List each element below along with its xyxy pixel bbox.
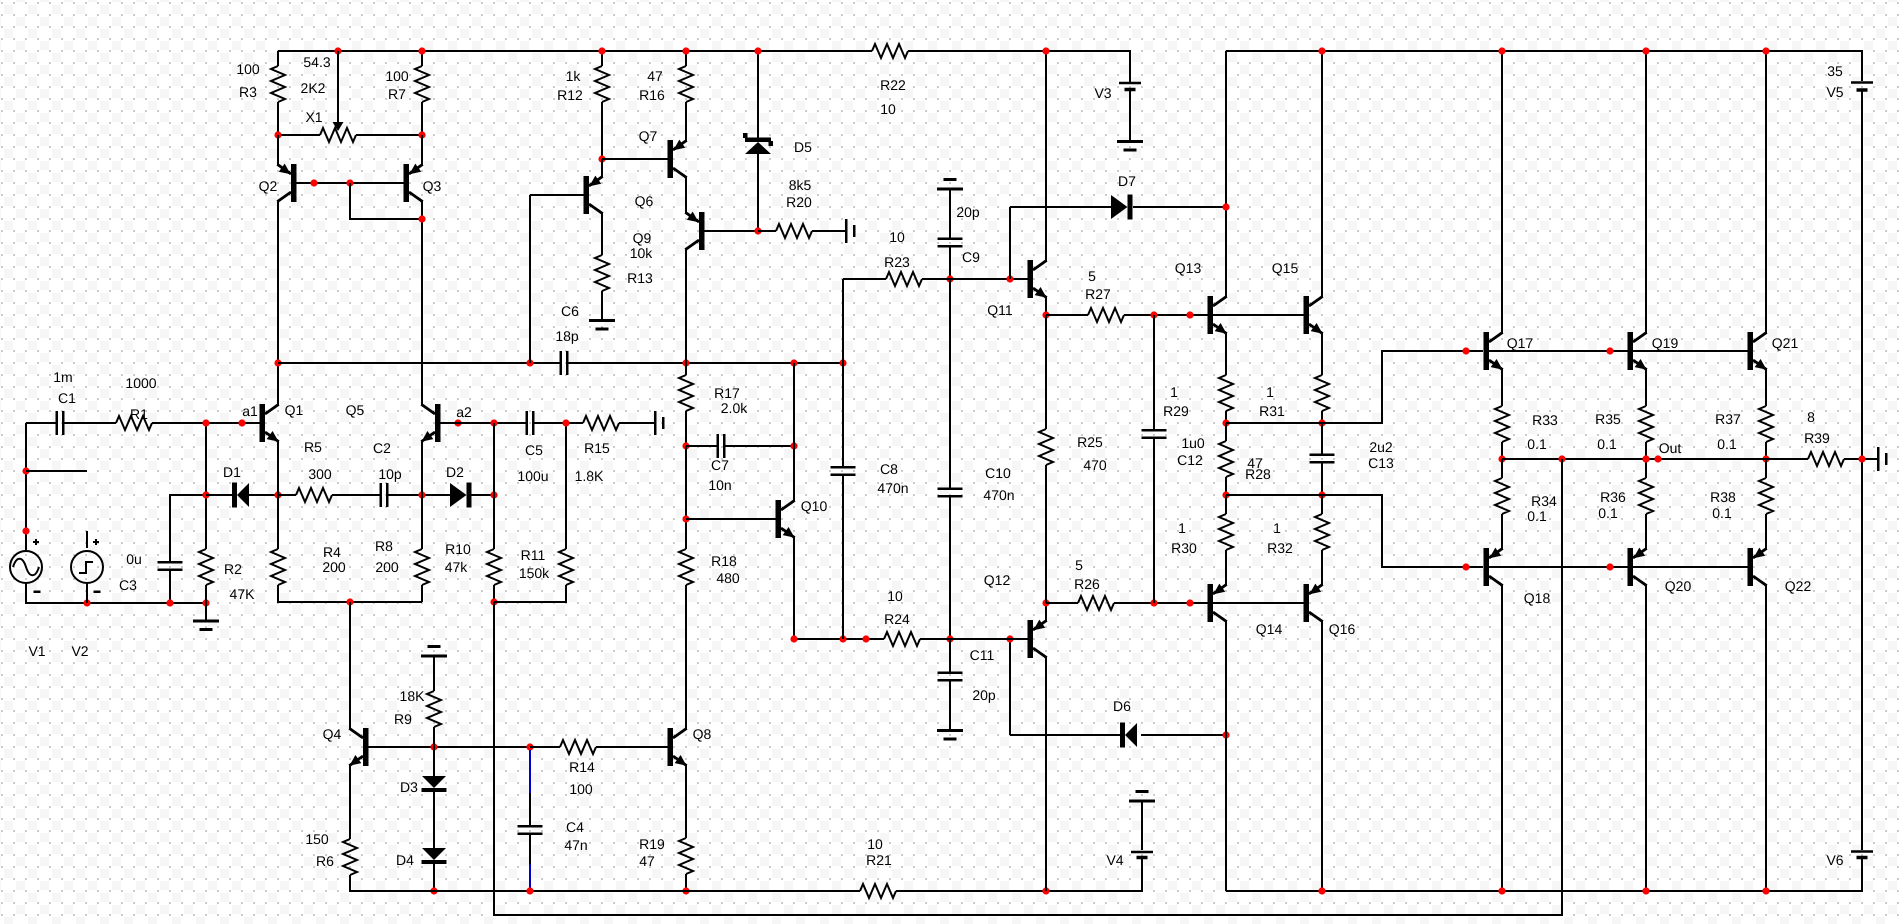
wire Q10 emitter down xyxy=(793,537,795,639)
wire V3 to ground xyxy=(1129,91,1131,140)
wire R35 bottom xyxy=(1645,442,1647,459)
svg-text:a2: a2 xyxy=(456,404,472,420)
transistor Q20 xyxy=(1628,548,1692,594)
svg-text:2.0k: 2.0k xyxy=(721,400,748,416)
wire R15 to ground xyxy=(619,422,654,424)
resistor R25 (470) xyxy=(1039,429,1107,473)
wire Q6 emitter up xyxy=(601,159,603,177)
resistor R37 (0.1) xyxy=(1715,406,1773,452)
svg-text:200: 200 xyxy=(375,559,399,575)
junction Q15 collector rail xyxy=(1318,47,1325,54)
svg-text:Q22: Q22 xyxy=(1785,578,1812,594)
junction C8 top xyxy=(839,359,846,366)
svg-text:1: 1 xyxy=(1266,384,1274,400)
resistor R26 (5) xyxy=(1074,557,1114,610)
svg-text:0.1: 0.1 xyxy=(1527,436,1547,452)
wire rail to Q13 collector column xyxy=(1225,51,1227,297)
junction Q1 emitter node xyxy=(274,491,281,498)
svg-text:Q13: Q13 xyxy=(1175,260,1202,276)
wire V5 to output ground node xyxy=(1861,91,1863,459)
resistor R15 (1.8K) xyxy=(575,416,619,484)
svg-text:D2: D2 xyxy=(446,464,464,480)
ground at R20 xyxy=(845,219,856,243)
wire upper base line Q17-Q19 xyxy=(1489,350,1628,352)
junction C5/R11 xyxy=(562,419,569,426)
wire R23 right lead xyxy=(922,278,950,280)
wire Q2 collector down xyxy=(277,201,279,363)
diode D3 (down) xyxy=(400,776,446,795)
svg-text:C2: C2 xyxy=(373,440,391,456)
svg-text:10: 10 xyxy=(867,836,883,852)
ground at R15 xyxy=(654,411,665,435)
svg-text:100u: 100u xyxy=(517,468,548,484)
junction R16 rail xyxy=(682,47,689,54)
svg-text:R24: R24 xyxy=(884,611,910,627)
wire V2 bottom xyxy=(86,583,88,603)
wire Q17 emitter to R33 xyxy=(1501,369,1503,406)
junction V2 bottom xyxy=(83,599,90,606)
wire Q4 base right xyxy=(368,746,531,748)
svg-text:470: 470 xyxy=(1083,457,1107,473)
resistor R33 (0.1) xyxy=(1495,406,1558,452)
svg-text:470n: 470n xyxy=(983,487,1014,503)
svg-text:C13: C13 xyxy=(1368,455,1394,471)
junction X1 left xyxy=(274,131,281,138)
svg-text:10: 10 xyxy=(880,101,896,117)
wire D1 cathode xyxy=(206,494,232,496)
svg-text:1: 1 xyxy=(1170,384,1178,400)
wire R23 left lead xyxy=(843,278,886,280)
wire Q11 collector to rail xyxy=(1045,51,1047,261)
svg-text:V4: V4 xyxy=(1106,852,1123,868)
wire R38 to Q22 emitter xyxy=(1765,514,1767,549)
wire C3 top xyxy=(170,495,206,561)
junction R7 top rail xyxy=(418,47,425,54)
battery V5 (35V) xyxy=(1826,63,1873,100)
svg-text:R8: R8 xyxy=(375,538,393,554)
junction R2/D1 line xyxy=(202,491,209,498)
wire R4 top xyxy=(277,495,279,549)
svg-text:C10: C10 xyxy=(985,465,1011,481)
wire Q2 emitter up xyxy=(277,135,279,165)
svg-text:Q17: Q17 xyxy=(1507,335,1534,351)
resistor R23 (10) xyxy=(884,229,922,286)
svg-text:C8: C8 xyxy=(880,461,898,477)
svg-text:C4: C4 xyxy=(566,819,584,835)
svg-text:Q11: Q11 xyxy=(987,302,1013,318)
svg-text:10k: 10k xyxy=(630,245,654,261)
wire Q21 collector to rail xyxy=(1765,51,1767,333)
junction R12/Q6/Q7 xyxy=(598,155,605,162)
junction upper base line mid xyxy=(1606,347,1613,354)
svg-text:Out: Out xyxy=(1659,440,1682,456)
wire R38 top xyxy=(1765,459,1767,478)
wire D2 cathode to R10 column xyxy=(471,494,494,496)
capacitor C11 (20p) xyxy=(938,647,996,703)
junction D5 rail xyxy=(754,47,761,54)
junction C4 bottom rail xyxy=(526,887,533,894)
resistor R32 (1) xyxy=(1267,514,1329,556)
wire R39 to supply midpoint xyxy=(1844,458,1877,460)
wire R2 top lead xyxy=(205,423,207,549)
resistor R30 (1) xyxy=(1171,514,1233,556)
junction R37 output rail xyxy=(1762,455,1769,462)
wire R36 to Q20 emitter xyxy=(1645,514,1647,549)
resistor R17 (2.0k) xyxy=(679,375,748,416)
svg-text:1000: 1000 xyxy=(125,375,156,391)
transistor Q6 xyxy=(584,176,654,214)
svg-text:0.1: 0.1 xyxy=(1597,436,1617,452)
resistor R36 (0.1) xyxy=(1598,478,1653,521)
wire D6 anode to x1226 xyxy=(1141,734,1226,736)
wire R29 bottom xyxy=(1225,411,1227,423)
svg-text:R9: R9 xyxy=(394,711,412,727)
junction C12 bottom tap xyxy=(1150,599,1157,606)
svg-text:a1: a1 xyxy=(242,403,258,419)
svg-text:Q21: Q21 xyxy=(1772,335,1799,351)
wire C13 bottom xyxy=(1321,464,1323,496)
svg-text:1.8K: 1.8K xyxy=(575,468,604,484)
svg-text:V2: V2 xyxy=(71,643,88,659)
wire X1 left lead xyxy=(278,134,320,136)
wire input left vertical to V1 xyxy=(25,423,27,551)
wire C10 top xyxy=(949,279,951,488)
resistor R28 (47) xyxy=(1219,441,1271,482)
wire R4 bottom to feedback node xyxy=(278,585,422,602)
resistor R4 (200) xyxy=(271,544,346,585)
resistor R1 (1000) xyxy=(116,375,157,430)
junction output rail R35 xyxy=(1642,455,1649,462)
svg-text:0u: 0u xyxy=(126,551,142,567)
svg-text:R2: R2 xyxy=(224,561,242,577)
node a2 label xyxy=(456,404,472,420)
wire R16 top xyxy=(685,51,687,66)
wire Q4 emitter down xyxy=(349,765,351,839)
wire D3 anode xyxy=(433,747,435,776)
svg-text:47K: 47K xyxy=(230,586,256,602)
source V1 sine generator xyxy=(10,539,46,659)
wire C1 to R1 xyxy=(65,422,117,424)
svg-text:54.3: 54.3 xyxy=(303,54,330,70)
svg-text:R31: R31 xyxy=(1259,403,1285,419)
junction feedback tap xyxy=(346,598,353,605)
resistor R19 (47) xyxy=(639,836,693,874)
diode D2 xyxy=(446,464,471,508)
junction base link b xyxy=(346,179,353,186)
svg-text:8: 8 xyxy=(1807,409,1815,425)
svg-text:100: 100 xyxy=(385,68,409,84)
wire R18 upper lead xyxy=(685,446,687,549)
junction Q1/Q2 collectors xyxy=(274,359,281,366)
svg-text:R38: R38 xyxy=(1710,489,1736,505)
junction a1 node xyxy=(238,419,245,426)
ground below V3 xyxy=(1117,140,1143,152)
wire R37 bottom xyxy=(1765,442,1767,459)
wire output rail xyxy=(1502,458,1808,460)
wire D6 line left xyxy=(1010,734,1120,736)
svg-text:R17: R17 xyxy=(714,385,740,401)
wire stub to V2 column xyxy=(26,470,87,472)
wire collector line to C6 xyxy=(278,362,560,364)
transistor Q16 xyxy=(1304,584,1356,637)
diode D7 (right) xyxy=(1111,173,1136,220)
wire R3 bottom lead xyxy=(277,102,279,135)
junction C4 top xyxy=(526,743,533,750)
wire D7 tap down xyxy=(1009,207,1011,279)
transistor Q5 xyxy=(346,402,441,442)
wire Q16 collector down xyxy=(1321,621,1323,891)
wire D3 to D4 xyxy=(433,792,435,848)
svg-text:1: 1 xyxy=(1273,520,1281,536)
wire link to upper output bases xyxy=(1322,351,1483,423)
svg-text:D6: D6 xyxy=(1113,698,1131,714)
svg-text:2u2: 2u2 xyxy=(1369,439,1393,455)
junction C10/R24 line xyxy=(946,635,953,642)
resistor R38 (0.1) xyxy=(1710,478,1773,521)
wire Q11 emitter to R27 xyxy=(1046,314,1088,316)
svg-text:R26: R26 xyxy=(1074,576,1100,592)
svg-text:R18: R18 xyxy=(711,553,737,569)
transistor Q7 xyxy=(639,128,687,178)
wire R32 to Q16 emitter xyxy=(1321,550,1323,585)
wire C7 right lead xyxy=(726,445,795,447)
svg-text:R22: R22 xyxy=(880,77,906,93)
junction base line Q13 xyxy=(1186,311,1193,318)
svg-text:5: 5 xyxy=(1088,268,1096,284)
wire R30 to Q14 emitter xyxy=(1225,550,1227,585)
wire D1 anode to Q1 emitter column xyxy=(249,494,278,496)
wire Q10 column to collector line xyxy=(793,363,795,446)
wire R11 bottom L xyxy=(494,585,566,602)
transistor Q19 xyxy=(1628,332,1679,370)
resistor R22 (10 ohm) in top rail xyxy=(872,44,908,117)
svg-text:35: 35 xyxy=(1827,63,1843,79)
svg-text:10p: 10p xyxy=(378,466,402,482)
wire C8 bottom lead xyxy=(842,476,844,639)
wire V2 top stub xyxy=(86,531,88,548)
junction Q5 emitter node xyxy=(418,491,425,498)
transistor Q21 xyxy=(1748,332,1799,370)
wire R11 top xyxy=(565,423,567,549)
resistor R10 (47k) xyxy=(445,541,501,585)
svg-text:0.1: 0.1 xyxy=(1598,505,1618,521)
wire R14 to Q8 base xyxy=(596,746,668,748)
svg-text:D7: D7 xyxy=(1118,173,1136,189)
junction R31/C13 xyxy=(1318,419,1325,426)
svg-text:0.1: 0.1 xyxy=(1717,436,1737,452)
svg-text:2K2: 2K2 xyxy=(301,80,326,96)
wire Q22 collector down xyxy=(1765,585,1767,891)
capacitor C5 (100u) xyxy=(517,411,548,484)
svg-text:R13: R13 xyxy=(627,270,653,286)
junction Q17 collector rail xyxy=(1498,47,1505,54)
svg-text:480: 480 xyxy=(716,570,740,586)
svg-text:C12: C12 xyxy=(1177,452,1203,468)
svg-text:R27: R27 xyxy=(1085,286,1111,302)
transistor Q3 xyxy=(404,164,442,202)
wire R28 top lead xyxy=(1225,423,1227,441)
wire R10 bottom xyxy=(493,585,495,602)
junction C7 right xyxy=(790,442,797,449)
zener diode D5 (cathode up) xyxy=(743,133,812,155)
wire R31 bottom xyxy=(1321,411,1323,423)
junction upper base line xyxy=(1462,347,1469,354)
wire C5 to R15 xyxy=(535,422,584,424)
wire R16 bottom to Q7 emitter xyxy=(685,102,687,141)
resistor R20 (8k5) xyxy=(776,177,812,238)
transistor Q13 xyxy=(1175,260,1227,334)
wire Q5 collector up xyxy=(421,363,423,405)
svg-text:D5: D5 xyxy=(794,139,812,155)
svg-text:47k: 47k xyxy=(445,559,469,575)
junction C7 left xyxy=(682,442,689,449)
svg-text:Q19: Q19 xyxy=(1652,335,1679,351)
wire Q17 collector to rail xyxy=(1501,51,1503,333)
svg-text:100: 100 xyxy=(236,61,260,77)
transistor Q8 xyxy=(668,726,712,766)
svg-text:C11: C11 xyxy=(970,647,995,663)
wire Q6-Q7 base wire xyxy=(602,158,668,160)
wire Q12 collector down xyxy=(1045,657,1047,891)
svg-text:Q4: Q4 xyxy=(323,726,342,742)
wire R9 bottom xyxy=(433,727,435,747)
junction output rail feedback tap xyxy=(1558,455,1565,462)
wire C4 upper blue segment xyxy=(529,750,531,793)
wire Q1 emitter down xyxy=(277,441,279,495)
capacitor C9 (20p) xyxy=(938,204,981,265)
wire rail to D5 xyxy=(757,51,759,138)
wire Q9 collector down xyxy=(685,249,687,363)
svg-text:R12: R12 xyxy=(557,87,583,103)
svg-text:150: 150 xyxy=(305,831,329,847)
svg-text:Q7: Q7 xyxy=(639,128,658,144)
wire R34 top xyxy=(1501,459,1503,478)
transistor Q1 xyxy=(260,402,304,442)
resistor R9 (18K) xyxy=(394,688,441,727)
svg-text:Q5: Q5 xyxy=(346,402,365,418)
svg-text:R3: R3 xyxy=(239,84,257,100)
svg-text:Q8: Q8 xyxy=(693,726,712,742)
wire Q13 emitter to R29 xyxy=(1225,333,1227,375)
junction Q12 emitter / R26 xyxy=(1042,599,1049,606)
svg-text:Q15: Q15 xyxy=(1272,260,1299,276)
svg-text:10: 10 xyxy=(889,229,905,245)
junction C8 bottom xyxy=(839,635,846,642)
junction D4 bottom rail xyxy=(430,887,437,894)
junction R10 bottom / feedback line xyxy=(490,598,497,605)
svg-text:18K: 18K xyxy=(400,688,426,704)
junction R19 bottom rail xyxy=(682,887,689,894)
capacitor C1 (1m) input coupling xyxy=(53,369,76,435)
wire output node down to V6 xyxy=(1861,459,1863,850)
wire C12 top xyxy=(1153,315,1155,429)
ground above V4 xyxy=(1129,790,1155,850)
wire Q7 collector down xyxy=(685,177,687,213)
svg-text:R28: R28 xyxy=(1245,466,1271,482)
wire upper cross link xyxy=(1226,422,1322,424)
resistor R29 (1) xyxy=(1163,375,1233,419)
junction Q3 collector tie xyxy=(418,215,425,222)
junction R29/R28 xyxy=(1222,419,1229,426)
svg-text:Q9: Q9 xyxy=(633,230,652,246)
transistor Q14 xyxy=(1208,584,1283,637)
transistor Q15 xyxy=(1272,260,1323,334)
junction base line Q14 xyxy=(1186,599,1193,606)
wire R19 bottom xyxy=(685,874,687,891)
ground at R2 bottom xyxy=(193,603,219,631)
transistor Q10 xyxy=(776,498,828,538)
wire R24 to Q12 base xyxy=(920,638,1028,640)
ground above C9 xyxy=(937,178,963,238)
junction input/V2 stub xyxy=(22,467,29,474)
resistor R3 (100) xyxy=(236,61,285,102)
junction C13/R32 xyxy=(1318,491,1325,498)
wire V6 to bottom negative rail xyxy=(1226,859,1862,891)
wire Q15 collector to rail xyxy=(1321,51,1323,297)
svg-text:150k: 150k xyxy=(519,565,550,581)
wire lower base line Q18-Q20 xyxy=(1489,566,1628,568)
ground below R13 xyxy=(589,319,615,331)
source V2 step generator xyxy=(71,539,103,659)
wire Q3 emitter up xyxy=(421,135,423,165)
wire R12 bottom xyxy=(601,102,603,159)
capacitor C7 (10n) xyxy=(708,434,731,493)
resistor R2 (47K) xyxy=(199,549,255,602)
wire C9 bottom xyxy=(949,248,951,280)
resistor R5 (300) xyxy=(296,439,332,502)
wire Q14 column to bottom rail xyxy=(1225,735,1227,891)
wire Q12 emitter up xyxy=(1045,603,1047,621)
potentiometer X1 (2K2 set 54.3) xyxy=(301,54,356,142)
wire R12 top xyxy=(601,51,603,66)
svg-text:Q16: Q16 xyxy=(1329,621,1356,637)
svg-text:C5: C5 xyxy=(525,442,543,458)
wire R23 riser xyxy=(842,279,844,363)
wire Q10 collector up xyxy=(793,446,795,501)
wire R34 to Q18 emitter xyxy=(1501,514,1503,549)
wire feedback from R10 column to output xyxy=(494,459,1562,915)
svg-text:R25: R25 xyxy=(1077,434,1103,450)
svg-text:C6: C6 xyxy=(561,303,579,319)
junction a2 node xyxy=(454,419,461,426)
svg-text:R23: R23 xyxy=(884,254,910,270)
capacitor C8 (470n) xyxy=(831,461,909,496)
wire R8 bottom xyxy=(421,585,423,602)
wire R2 bottom lead xyxy=(205,585,207,603)
svg-text:R37: R37 xyxy=(1715,411,1741,427)
wire R7 bottom lead xyxy=(421,102,423,135)
transistor Q11 xyxy=(987,260,1046,318)
junction R2 bottom ground xyxy=(202,599,209,606)
svg-text:200: 200 xyxy=(322,559,346,575)
wire upper base line Q19-Q21 xyxy=(1633,350,1748,352)
junction Q19 collector rail xyxy=(1642,47,1649,54)
svg-text:R39: R39 xyxy=(1804,430,1830,446)
capacitor C6 (18p) xyxy=(555,303,579,375)
resistor R8 (200) xyxy=(375,538,429,585)
svg-text:1m: 1m xyxy=(53,369,72,385)
svg-text:Q14: Q14 xyxy=(1256,621,1283,637)
wire Q12 emitter to R26 xyxy=(1046,602,1078,604)
wire R6 to bottom rail corner xyxy=(350,875,860,891)
svg-text:20p: 20p xyxy=(956,204,980,220)
svg-text:10: 10 xyxy=(887,588,903,604)
junction D7 / Q13 collector column xyxy=(1222,203,1229,210)
resistor R6 (150) xyxy=(305,831,357,875)
capacitor C4 (47n) xyxy=(518,819,588,853)
svg-text:300: 300 xyxy=(308,466,332,482)
resistor R21 (10) in bottom rail xyxy=(860,836,896,898)
